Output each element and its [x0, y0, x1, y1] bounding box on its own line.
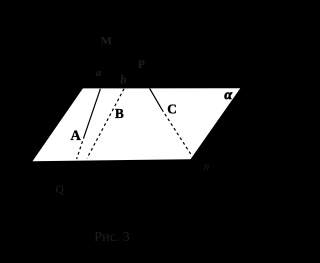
svg-text:M: M: [101, 34, 112, 48]
svg-text:Q: Q: [56, 184, 65, 196]
svg-text:N: N: [202, 163, 210, 173]
svg-text:Рис. 3: Рис. 3: [94, 230, 130, 245]
line a solid part (above piercing point A): [84, 89, 100, 136]
plane alpha (white parallelogram): [33, 88, 241, 161]
line b hidden part (dashed): [87, 89, 124, 159]
svg-text:a: a: [96, 67, 102, 79]
svg-text:A: A: [70, 128, 81, 144]
svg-text:B: B: [115, 106, 124, 121]
line c hidden part (dashed): [162, 109, 191, 154]
svg-text:C: C: [167, 102, 177, 117]
line c solid part: [150, 89, 162, 110]
line a hidden part (dashed below A): [77, 136, 85, 159]
svg-text:P: P: [138, 57, 145, 71]
svg-text:b: b: [120, 72, 126, 86]
svg-text:α: α: [224, 88, 232, 103]
